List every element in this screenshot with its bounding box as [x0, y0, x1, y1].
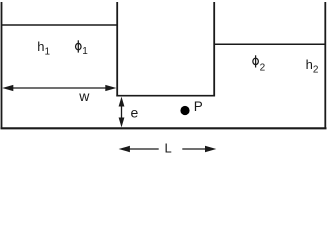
- channel bottom line: [1, 127, 327, 129]
- width dimension arrow w: [2, 85, 116, 91]
- svg-text:1: 1: [82, 46, 88, 57]
- svg-text:2: 2: [260, 62, 266, 73]
- gate right wall: [213, 2, 215, 97]
- svg-text:L: L: [165, 141, 172, 156]
- left tank wall: [1, 2, 3, 129]
- label phi1: [76, 40, 82, 52]
- upstream water surface line: [2, 24, 118, 26]
- svg-text:e: e: [131, 105, 139, 121]
- svg-text:w: w: [78, 88, 90, 104]
- svg-text:P: P: [194, 99, 203, 114]
- gate bottom edge: [116, 95, 215, 97]
- point P dot: [180, 106, 189, 115]
- svg-text:h1: h1: [37, 39, 50, 58]
- downstream water surface line: [214, 43, 325, 45]
- svg-text:h2: h2: [306, 57, 319, 75]
- gap dimension arrow e: [119, 97, 125, 128]
- right tank wall: [324, 2, 326, 129]
- gate left wall: [116, 2, 118, 97]
- length dimension arrow L: [119, 146, 217, 152]
- label phi2: [253, 55, 259, 67]
